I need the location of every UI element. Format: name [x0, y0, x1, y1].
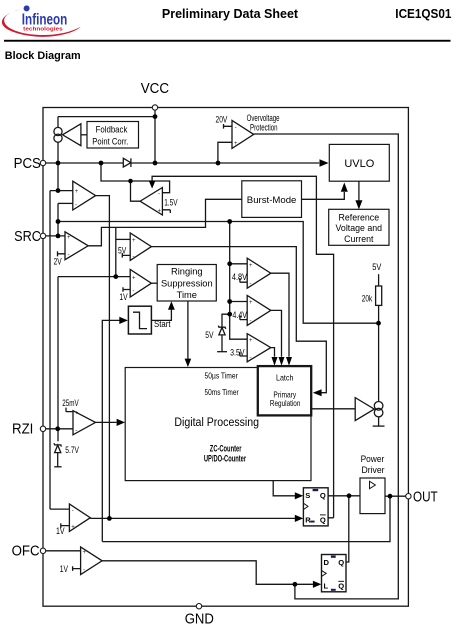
- ref stub 1V: [123, 287, 130, 292]
- wire VCC rail: [154, 110, 156, 163]
- svg-text:Voltage and: Voltage and: [336, 223, 383, 233]
- svg-text:1V: 1V: [60, 564, 69, 574]
- comparator 1.5V feedback network: [101, 163, 170, 193]
- svg-text:Point Corr.: Point Corr.: [92, 137, 128, 147]
- svg-text:Suppression: Suppression: [161, 278, 213, 288]
- wire branch to 5V comparator input: [115, 227, 117, 276]
- svg-text:Start: Start: [154, 318, 171, 329]
- svg-text:Block Diagram: Block Diagram: [5, 50, 81, 62]
- ref stub 2V: [58, 251, 66, 256]
- wire 1V out to ringing box: [151, 282, 157, 284]
- svg-text:R: R: [305, 515, 311, 524]
- svg-text:+: +: [249, 300, 253, 306]
- svg-text:5.7V: 5.7V: [65, 445, 79, 455]
- ref stub 1.5V: [162, 210, 170, 213]
- comparator OVP 20V: [232, 120, 254, 148]
- comparator 3.5V: [247, 334, 271, 362]
- svg-text:50µs Timer: 50µs Timer: [205, 371, 239, 381]
- wire OVP output down right side: [254, 134, 399, 599]
- wire 20k node down to current source: [378, 323, 380, 401]
- comparator PCS (with current source input): [57, 163, 59, 191]
- value labels: [54, 114, 382, 574]
- svg-text:25mV: 25mV: [62, 398, 79, 408]
- svg-text:Digital Processing: Digital Processing: [174, 417, 259, 430]
- wire start box output: [151, 310, 171, 321]
- box UVLO: [329, 144, 389, 181]
- svg-text:L: L: [324, 581, 329, 590]
- svg-text:Protection: Protection: [250, 122, 278, 133]
- svg-text:Latch: Latch: [276, 373, 293, 383]
- svg-text:ICE1QS01: ICE1QS01: [395, 6, 451, 20]
- svg-text:-: -: [158, 192, 160, 198]
- svg-text:UP/DO-Counter: UP/DO-Counter: [204, 453, 246, 464]
- arrowheads: [117, 159, 363, 588]
- svg-text:-: -: [83, 567, 85, 573]
- svg-text:4.8V: 4.8V: [232, 273, 248, 283]
- box start pulse: [128, 306, 151, 334]
- svg-text:Q: Q: [338, 581, 344, 590]
- svg-text:-: -: [250, 318, 252, 324]
- svg-text:20V: 20V: [216, 114, 228, 124]
- svg-text:+: +: [249, 263, 253, 269]
- wire current source to PCS line: [57, 142, 59, 163]
- svg-text:Q: Q: [320, 491, 326, 500]
- svg-text:Current: Current: [344, 234, 374, 244]
- comparator OFC 1V: [46, 550, 81, 552]
- svg-text:Power: Power: [361, 453, 385, 464]
- zener 5.7V: [54, 443, 61, 446]
- svg-text:2V: 2V: [54, 257, 63, 267]
- current source I1: [54, 127, 62, 135]
- wire OFC output to L input: [102, 561, 313, 585]
- wire start input from OUT: [102, 320, 119, 541]
- svg-text:Foldback: Foldback: [96, 124, 129, 135]
- block texts: [92, 113, 384, 475]
- svg-text:SRC: SRC: [14, 228, 41, 244]
- comparator 4.4V: [247, 295, 271, 325]
- svg-text:technologies: technologies: [23, 27, 63, 33]
- flip-flop labels: [305, 491, 344, 590]
- op-amp 1.5V (left pointing): [140, 188, 162, 216]
- svg-text:OUT: OUT: [413, 488, 438, 505]
- svg-text:+: +: [75, 189, 79, 195]
- comparator RZI 25mV: [46, 428, 73, 430]
- svg-text:Regulation: Regulation: [270, 398, 300, 408]
- svg-text:-: -: [75, 203, 77, 209]
- svg-text:+: +: [132, 275, 136, 281]
- svg-text:1.5V: 1.5V: [164, 198, 178, 208]
- digital processing texts: [174, 371, 300, 464]
- svg-text:OFC: OFC: [12, 542, 40, 559]
- pulse waveform icon: [133, 312, 147, 328]
- wire R input from comparator: [90, 517, 295, 519]
- op-amp output stage: [355, 398, 374, 421]
- resistor 20k: [378, 274, 380, 286]
- flip-flop D: [322, 555, 347, 592]
- box Power Driver: [360, 478, 385, 514]
- comparator RZI 1V: [50, 508, 69, 510]
- wire PCS line right: [131, 162, 319, 164]
- wire UVLO to reference: [358, 181, 360, 200]
- svg-text:Driver: Driver: [362, 464, 385, 475]
- svg-text:+: +: [82, 550, 86, 556]
- ref stub 5V: [122, 253, 130, 258]
- svg-text:1V: 1V: [119, 292, 128, 302]
- wire OUT: [385, 495, 406, 497]
- box Ringing Suppression Time: [157, 265, 216, 302]
- comparator 5V: [130, 233, 151, 260]
- svg-text:4.4V: 4.4V: [232, 310, 247, 320]
- wire Q output to power driver: [328, 495, 360, 497]
- flip-flop tiny marks: [310, 489, 335, 591]
- svg-text:5V: 5V: [205, 330, 214, 340]
- svg-text:D: D: [324, 558, 330, 567]
- box Reference Voltage and Current: [329, 209, 389, 245]
- wire 5V output to latch arrow: [151, 247, 326, 393]
- box Burst-Mode: [242, 181, 302, 218]
- box Foldback Point Corr.: [87, 122, 139, 149]
- svg-text:Preliminary Data Sheet: Preliminary Data Sheet: [162, 7, 299, 21]
- svg-text:Time: Time: [177, 290, 197, 300]
- wire D-FF Q to node: [346, 496, 349, 562]
- Infineon logo i-dot: [24, 5, 30, 11]
- plus minus marks: [67, 125, 253, 573]
- pin circles: [40, 105, 411, 609]
- svg-text:+: +: [234, 141, 238, 147]
- svg-text:+: +: [71, 524, 75, 530]
- svg-text:+: +: [157, 209, 161, 215]
- header rule: [4, 40, 451, 42]
- svg-text:-: -: [68, 253, 70, 259]
- svg-text:-: -: [235, 125, 237, 131]
- svg-text:-: -: [72, 508, 74, 514]
- svg-text:5V: 5V: [372, 263, 381, 273]
- svg-text:UVLO: UVLO: [344, 158, 374, 170]
- svg-text:20k: 20k: [362, 294, 373, 304]
- diode D1: [123, 158, 131, 167]
- box Latch / Primary Regulation: [258, 366, 311, 415]
- wire Qbar to 1.5V comparator: [152, 176, 334, 518]
- op-amp foldback: [63, 124, 81, 146]
- current source I2: [374, 402, 383, 411]
- wire 2V output to Burst-Mode: [88, 199, 242, 246]
- wire PCS line: [46, 162, 124, 164]
- box Digital Processing: [125, 368, 311, 481]
- svg-text:-: -: [133, 254, 135, 260]
- svg-text:3.5V: 3.5V: [230, 348, 245, 358]
- svg-text:S: S: [305, 491, 310, 500]
- wire RZI net: [58, 276, 130, 278]
- wire DP to S input: [273, 481, 295, 496]
- wire PCS comparator output: [96, 196, 110, 519]
- svg-text:+: +: [67, 235, 71, 241]
- wire SRC long rail: [58, 222, 379, 324]
- wire Burst output to UVLO: [302, 192, 345, 199]
- svg-text:+: +: [249, 338, 253, 344]
- wire ringing box to digital processing: [187, 301, 189, 359]
- svg-text:Ringing: Ringing: [171, 267, 203, 277]
- svg-text:PCS: PCS: [14, 154, 41, 171]
- outer boundary box: [43, 108, 408, 607]
- wire foldback amp to box: [81, 134, 87, 136]
- svg-text:1V: 1V: [56, 526, 65, 536]
- svg-text:-: -: [133, 288, 135, 294]
- comparator 4.8V: [247, 258, 271, 288]
- bus comparator stack: [230, 222, 248, 340]
- zener 5V: [222, 314, 230, 327]
- svg-text:GND: GND: [185, 610, 214, 627]
- wire OUT feedback down to start: [102, 496, 390, 541]
- Infineon logo swoosh: [2, 10, 81, 37]
- svg-text:RZI: RZI: [12, 420, 33, 437]
- svg-text:+: +: [75, 411, 79, 417]
- svg-text:-: -: [250, 355, 252, 361]
- svg-text:Burst-Mode: Burst-Mode: [247, 195, 297, 206]
- svg-text:-: -: [250, 281, 252, 287]
- svg-text:VCC: VCC: [141, 80, 169, 97]
- svg-text:+: +: [132, 238, 136, 244]
- svg-text:Q: Q: [320, 515, 326, 524]
- svg-text:50ms Timer: 50ms Timer: [205, 387, 240, 397]
- svg-text:5V: 5V: [118, 245, 127, 255]
- svg-text:Reference: Reference: [339, 212, 380, 222]
- comparator 2V (SRC): [46, 235, 65, 237]
- flip-flop SR: [303, 488, 328, 526]
- svg-text:-: -: [75, 428, 77, 434]
- svg-text:Q: Q: [338, 558, 344, 567]
- comparator 1V ringing: [130, 269, 151, 297]
